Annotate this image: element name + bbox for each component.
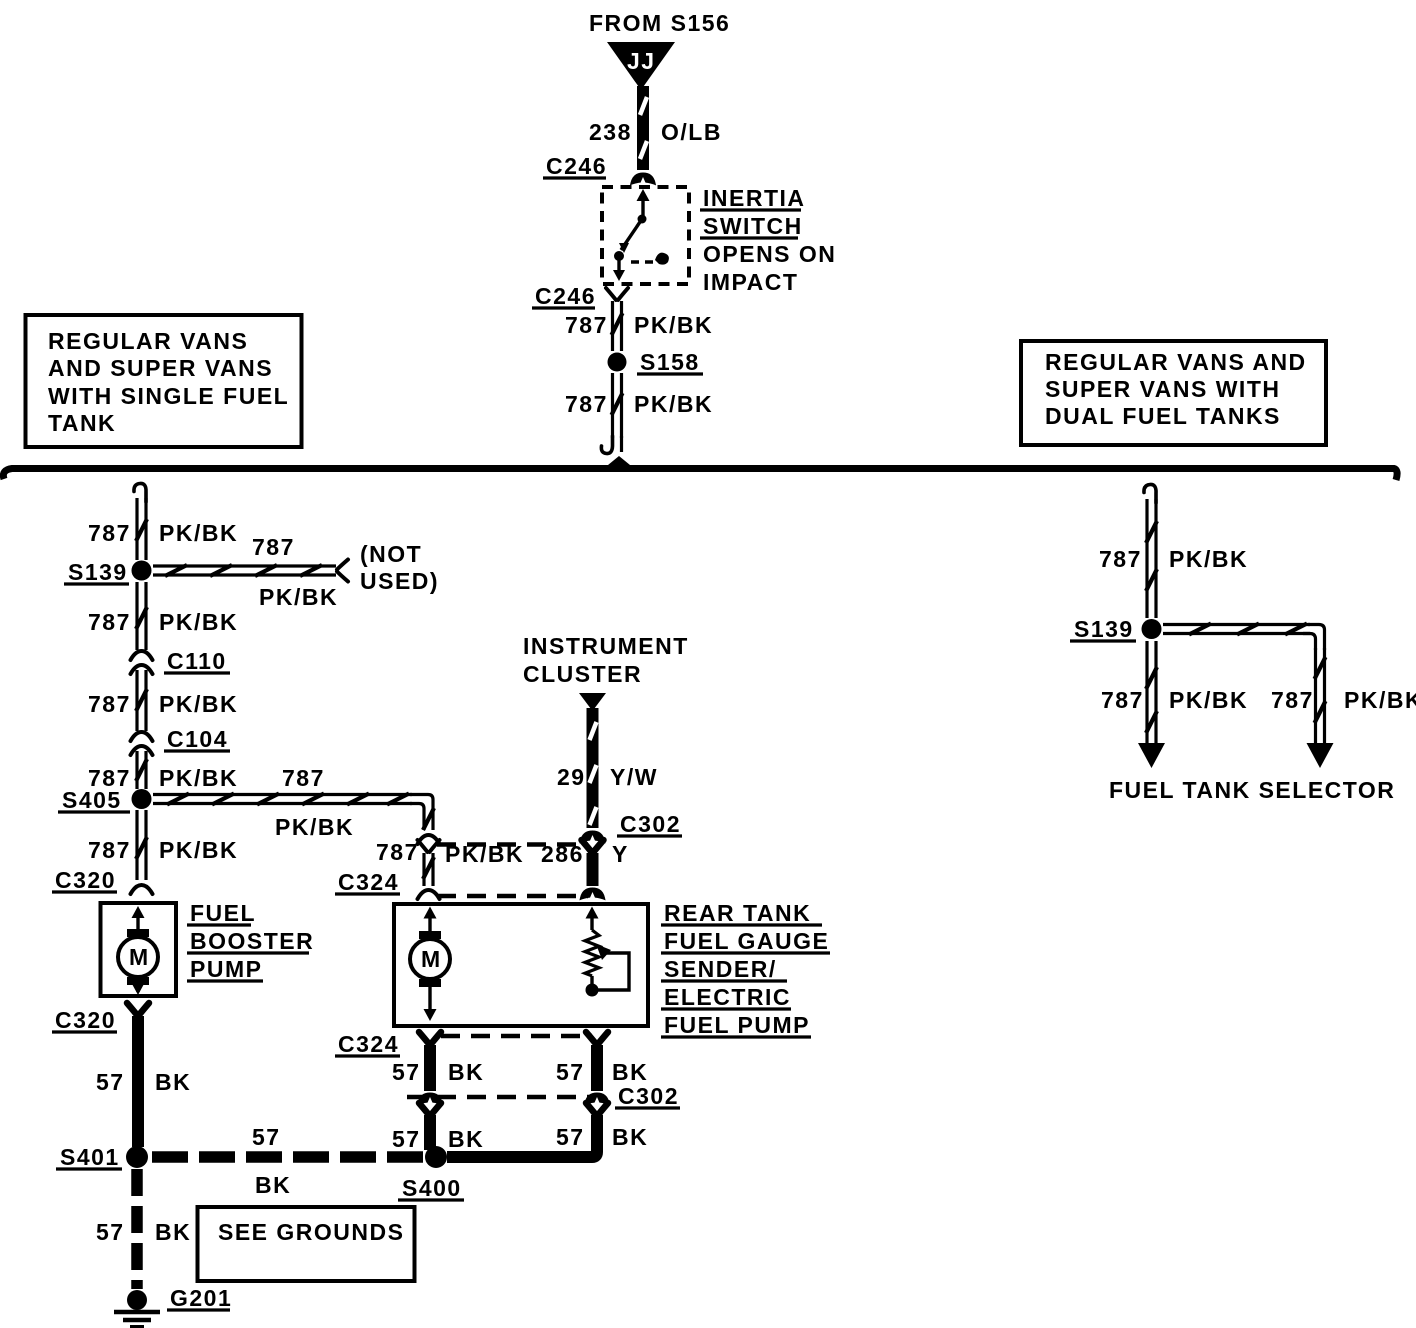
connector flare C246 bottom half <box>606 288 628 300</box>
svg-text:PK/BK: PK/BK <box>159 765 238 791</box>
bus junction bump <box>608 456 630 465</box>
svg-text:PK/BK: PK/BK <box>259 584 338 610</box>
connector C104 upper half <box>131 732 153 741</box>
svg-text:PK/BK: PK/BK <box>1169 687 1248 713</box>
inertia switch lower contact dot <box>614 251 624 261</box>
svg-text:BK: BK <box>255 1172 291 1198</box>
wire 57 BK S400 to rear pump (solid) <box>447 1126 597 1157</box>
pump pin arrow top <box>136 912 139 929</box>
svg-text:787: 787 <box>565 391 608 417</box>
svg-text:PK/BK: PK/BK <box>275 814 354 840</box>
wire 57 BK left through connector <box>419 1032 441 1044</box>
svg-text:USED): USED) <box>360 568 439 594</box>
svg-text:PK/BK: PK/BK <box>159 520 238 546</box>
svg-text:CLUSTER: CLUSTER <box>523 661 642 687</box>
svg-text:787: 787 <box>282 765 325 791</box>
svg-text:787: 787 <box>1271 687 1314 713</box>
instrument cluster triangle <box>579 693 606 711</box>
connector C104 lower half <box>131 746 153 755</box>
wire 787 PK/BK S139 to right branch (horizontal) <box>1163 624 1310 635</box>
svg-text:SEE GROUNDS: SEE GROUNDS <box>218 1219 404 1245</box>
selector arrow left <box>1138 743 1165 768</box>
svg-text:OPENS ON: OPENS ON <box>703 241 836 267</box>
svg-text:286: 286 <box>541 841 584 867</box>
svg-text:SUPER VANS WITH: SUPER VANS WITH <box>1045 376 1280 402</box>
sender wiper junction dot <box>586 984 599 997</box>
wire 57 BK left below connector to S400 <box>419 1103 441 1115</box>
sender resistor lower stem <box>590 976 593 990</box>
svg-text:FROM S156: FROM S156 <box>589 10 730 36</box>
svg-text:IMPACT: IMPACT <box>703 269 798 295</box>
connector flare C246 top half <box>632 174 654 183</box>
svg-text:FUEL PUMP: FUEL PUMP <box>664 1012 810 1038</box>
wire 787 PK/BK through connector (left) <box>418 840 440 852</box>
svg-text:787: 787 <box>88 520 131 546</box>
wire 787 PK/BK C104 to S405 <box>136 751 147 789</box>
svg-text:C110: C110 <box>167 648 227 674</box>
wire 787 PK/BK below S139 (right) <box>1146 641 1157 742</box>
connector C110 upper half <box>131 651 153 660</box>
inertia switch pivot dot <box>638 215 647 224</box>
svg-text:TANK: TANK <box>48 410 116 436</box>
wire 787 PK/BK above S158 <box>612 301 623 351</box>
svg-text:PK/BK: PK/BK <box>1344 687 1416 713</box>
thick wire start flare below pump <box>127 1003 149 1015</box>
svg-text:C324: C324 <box>338 869 399 895</box>
svg-text:S139: S139 <box>68 559 128 585</box>
sender wiper arrow <box>596 944 611 960</box>
note box SEE GROUNDS <box>198 1207 415 1281</box>
svg-text:BK: BK <box>155 1069 191 1095</box>
wire 787 PK/BK to S139 <box>136 498 147 560</box>
wire end flare at C320 <box>131 885 153 894</box>
svg-text:(NOT: (NOT <box>360 541 422 567</box>
svg-text:C302: C302 <box>620 811 681 837</box>
svg-text:C246: C246 <box>546 153 607 179</box>
svg-text:57: 57 <box>96 1069 125 1095</box>
wire squiggle into bus <box>620 436 623 452</box>
wire 787 PK/BK S405 to C320 <box>136 810 147 880</box>
wire squiggle from bus (left) <box>134 483 146 502</box>
svg-text:WITH SINGLE FUEL: WITH SINGLE FUEL <box>48 383 289 409</box>
svg-text:BK: BK <box>448 1059 484 1085</box>
svg-text:787: 787 <box>376 839 419 865</box>
wire 57 BK right below connector <box>586 1103 608 1115</box>
svg-text:C302: C302 <box>618 1083 679 1109</box>
run end flare at C324 <box>418 835 440 844</box>
svg-text:BOOSTER: BOOSTER <box>190 928 314 954</box>
svg-text:C324: C324 <box>338 1031 399 1057</box>
svg-text:INERTIA: INERTIA <box>703 185 806 211</box>
inertia switch blade <box>621 219 642 250</box>
svg-text:57: 57 <box>392 1126 421 1152</box>
svg-text:S405: S405 <box>62 787 122 813</box>
sender pump motor M <box>419 931 441 939</box>
svg-text:PK/BK: PK/BK <box>1169 546 1248 572</box>
svg-text:INSTRUMENT: INSTRUMENT <box>523 633 689 659</box>
svg-text:AND SUPER VANS: AND SUPER VANS <box>48 355 273 381</box>
wire 787 PK/BK C110 to C104 <box>136 670 147 731</box>
svg-text:787: 787 <box>1099 546 1142 572</box>
wire 238 O/LB <box>640 86 647 170</box>
wire 787 PK/BK to S139 (right) <box>1146 499 1157 618</box>
svg-text:ELECTRIC: ELECTRIC <box>664 984 791 1010</box>
svg-text:57: 57 <box>96 1219 125 1245</box>
svg-text:BK: BK <box>155 1219 191 1245</box>
svg-text:DUAL FUEL TANKS: DUAL FUEL TANKS <box>1045 403 1281 429</box>
note box REGULAR VANS DUAL FUEL TANKS <box>1021 341 1326 445</box>
sender pump pin arrow bottom <box>428 987 431 1013</box>
svg-text:BK: BK <box>612 1059 648 1085</box>
note box REGULAR VANS SINGLE FUEL TANK <box>26 315 302 447</box>
svg-text:PK/BK: PK/BK <box>634 312 713 338</box>
wire 286 Y through connector (right) <box>582 840 604 852</box>
svg-text:S158: S158 <box>640 349 700 375</box>
svg-text:REAR TANK: REAR TANK <box>664 900 811 926</box>
svg-text:C320: C320 <box>55 867 116 893</box>
svg-text:G201: G201 <box>170 1285 232 1311</box>
svg-text:FUEL TANK SELECTOR: FUEL TANK SELECTOR <box>1109 777 1395 803</box>
svg-text:S401: S401 <box>60 1144 120 1170</box>
svg-text:SENDER/: SENDER/ <box>664 956 777 982</box>
sender pump pin arrow top <box>428 912 431 931</box>
wire 787 PK/BK S139 to C110 <box>136 582 147 650</box>
svg-text:57: 57 <box>392 1059 421 1085</box>
svg-text:S400: S400 <box>402 1175 462 1201</box>
source triangle JJ <box>607 42 675 90</box>
rear tank fuel gauge sender box <box>394 904 648 1026</box>
svg-text:787: 787 <box>88 609 131 635</box>
svg-text:PK/BK: PK/BK <box>634 391 713 417</box>
svg-text:PUMP: PUMP <box>190 956 262 982</box>
selector arrow right <box>1307 743 1334 768</box>
svg-text:PK/BK: PK/BK <box>159 691 238 717</box>
in-line connector band (C324/C302 upper) <box>437 842 588 847</box>
svg-text:57: 57 <box>556 1124 585 1150</box>
splice S400 dot <box>425 1146 447 1168</box>
svg-text:PK/BK: PK/BK <box>445 841 524 867</box>
inertia switch pin arrow (bottom) <box>617 256 620 272</box>
wire 57 BK right through connector <box>586 1032 608 1044</box>
splice S139 dot (right) <box>1142 619 1162 639</box>
pump pin arrow bottom <box>136 985 139 992</box>
inertia switch actuator dashed link <box>631 260 654 264</box>
inertia switch pin arrow (top) <box>641 196 644 216</box>
svg-text:PK/BK: PK/BK <box>159 837 238 863</box>
svg-text:787: 787 <box>1101 687 1144 713</box>
splice S405 dot <box>132 789 152 809</box>
inertia switch dashed box <box>602 187 689 284</box>
svg-text:57: 57 <box>556 1059 585 1085</box>
svg-text:PK/BK: PK/BK <box>159 609 238 635</box>
inertia switch actuator blob <box>655 253 669 265</box>
svg-text:S139: S139 <box>1074 616 1134 642</box>
svg-text:787: 787 <box>252 534 295 560</box>
svg-text:M: M <box>129 944 150 970</box>
svg-text:BK: BK <box>612 1124 648 1150</box>
svg-text:C246: C246 <box>535 283 596 309</box>
fuel booster pump box <box>101 903 177 996</box>
svg-text:BK: BK <box>448 1126 484 1152</box>
wire 57 BK pump to S401 <box>132 1016 144 1147</box>
splice S139 dot (left) <box>132 561 152 581</box>
svg-text:C104: C104 <box>167 726 228 752</box>
bus line (options divider) <box>3 469 1397 481</box>
svg-text:29: 29 <box>557 764 586 790</box>
stub end flare <box>337 560 348 582</box>
svg-text:787: 787 <box>565 312 608 338</box>
sender resistor branch pin arrow top <box>590 912 593 930</box>
wire 787 PK/BK stub (NOT USED) <box>153 565 336 576</box>
svg-text:Y/W: Y/W <box>610 764 658 790</box>
wire squiggle from bus (right) <box>1144 484 1156 503</box>
svg-text:O/LB: O/LB <box>661 119 722 145</box>
wire 787 PK/BK right branch down <box>1315 648 1326 742</box>
svg-text:REGULAR VANS: REGULAR VANS <box>48 328 248 354</box>
wire 29 Y/W <box>590 708 597 828</box>
wire 57 BK dashed S401 to G201 <box>131 1169 143 1289</box>
svg-text:C320: C320 <box>55 1007 116 1033</box>
svg-text:57: 57 <box>252 1124 281 1150</box>
svg-text:238: 238 <box>589 119 632 145</box>
ground G201 <box>127 1290 147 1310</box>
pump motor M <box>127 929 149 937</box>
svg-text:FUEL GAUGE: FUEL GAUGE <box>664 928 829 954</box>
in-line connector band (C324/C302 lower) <box>441 1034 592 1039</box>
connector C110 lower half <box>131 665 153 674</box>
splice S401 dot <box>126 1146 148 1168</box>
svg-text:SWITCH: SWITCH <box>703 213 803 239</box>
svg-text:JJ: JJ <box>627 48 656 74</box>
svg-text:Y: Y <box>612 841 629 867</box>
svg-text:787: 787 <box>88 691 131 717</box>
Y/W wire end flare at C302 <box>582 832 604 841</box>
wire 57 BK dashed run S401 to S400 <box>152 1151 424 1163</box>
splice S158 dot <box>608 353 627 372</box>
sender resistor zigzag <box>585 930 599 976</box>
wire 787 PK/BK below S158 <box>612 373 623 438</box>
wire 787 PK/BK S405 to C324 (horizontal run) <box>153 794 412 805</box>
svg-text:787: 787 <box>88 837 131 863</box>
svg-text:M: M <box>421 946 442 972</box>
svg-text:FUEL: FUEL <box>190 900 256 926</box>
svg-text:REGULAR VANS AND: REGULAR VANS AND <box>1045 349 1307 375</box>
